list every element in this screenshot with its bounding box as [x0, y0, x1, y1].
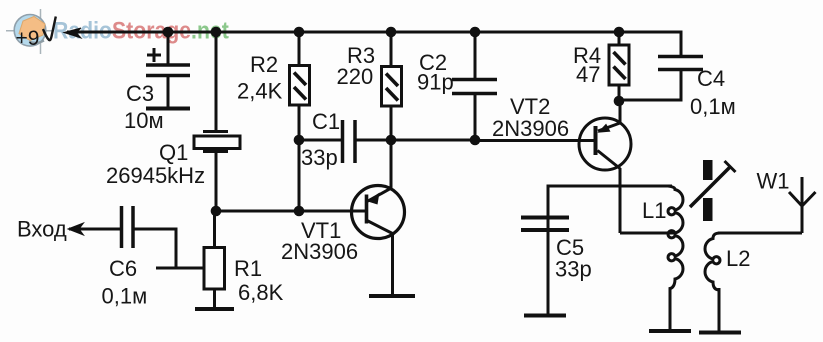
svg-text:R1: R1 [234, 256, 262, 281]
ground R1 [195, 307, 234, 311]
wire R1 top lead [213, 211, 216, 248]
watermark logo circle [6, 9, 53, 54]
svg-text:C4: C4 [697, 66, 725, 91]
crystal Q1 [194, 132, 240, 152]
wire L2 to antenna [718, 232, 802, 235]
node junction R4 bottom [614, 96, 625, 107]
capacitor C3 [146, 48, 190, 107]
node junction Q1 R1 base [211, 206, 222, 217]
ground VT1 [369, 294, 415, 298]
wire input to C6 [69, 228, 120, 231]
svg-text:33p: 33p [301, 145, 338, 170]
svg-text:Q1: Q1 [159, 140, 188, 165]
node junction R3 top [386, 27, 397, 38]
node junction R3 bottom [386, 135, 397, 146]
wire R3 bottom / VT1 collector lead [390, 106, 393, 189]
svg-text:2,4K: 2,4K [237, 79, 283, 104]
capacitor C6 [122, 206, 134, 248]
node junction C1 left [294, 135, 305, 146]
ground C5 [524, 314, 566, 318]
node junction R2 base [294, 206, 305, 217]
wire C5 top [548, 186, 672, 231]
input arrow [68, 223, 84, 235]
wire C6 to R1 [134, 229, 176, 268]
svg-text:6,8K: 6,8K [238, 280, 284, 305]
wire base VT2 [475, 139, 594, 142]
wire R4 bottom lead [618, 85, 621, 101]
inductor L2 [705, 233, 720, 290]
wire top rail [67, 31, 681, 34]
watermark text RadioStorage.net [53, 16, 229, 44]
svg-text:220: 220 [337, 64, 374, 89]
ground C3 [146, 107, 190, 111]
resistor R4 [609, 45, 629, 85]
wire base node [216, 210, 365, 213]
node junction C3 top [163, 27, 174, 38]
core adjuster arrow [690, 161, 736, 207]
wire C2 bottom lead [474, 95, 477, 140]
svg-text:+9: +9 [16, 27, 40, 50]
capacitor C2 [452, 80, 497, 94]
+9v supply label [16, 17, 56, 51]
svg-text:C6: C6 [109, 256, 137, 281]
wire C4 bottom to R4 node [621, 71, 681, 100]
wire R2 bottom lead [298, 105, 301, 211]
svg-text:L2: L2 [726, 246, 750, 271]
ferrite core [703, 160, 713, 221]
node junction R4 top [614, 27, 625, 38]
wire C1 left [299, 139, 341, 142]
svg-text:Вход: Вход [17, 217, 67, 242]
node junction C2 top [470, 27, 481, 38]
capacitor C5 [521, 218, 569, 231]
wire L1 tap [620, 232, 674, 235]
wire C2 top lead [474, 32, 477, 79]
svg-text:L1: L1 [642, 198, 666, 223]
wire L1 bottom lead [669, 288, 672, 330]
wire C3 lead [167, 32, 170, 64]
node junction Q1 top [211, 27, 222, 38]
wire C5 bottom lead [547, 231, 550, 314]
svg-text:2N3906: 2N3906 [492, 116, 569, 141]
svg-text:W1: W1 [757, 169, 790, 194]
resistor R3 [382, 67, 402, 107]
svg-text:33p: 33p [555, 257, 592, 282]
wire R3 top lead [390, 32, 393, 67]
inductor L1 [668, 186, 683, 330]
wire C4 branch top [680, 31, 683, 56]
+9v arrow [64, 28, 81, 38]
wire R4 top lead [618, 32, 621, 45]
svg-text:0,1м: 0,1м [102, 284, 148, 309]
svg-text:91p: 91p [417, 70, 454, 95]
node junction R2 top [294, 27, 305, 38]
wire Q1 top lead [215, 32, 218, 131]
capacitor C1 [343, 120, 356, 163]
svg-text:C3: C3 [126, 81, 154, 106]
svg-text:26945kHz: 26945kHz [106, 163, 205, 188]
resistor R2 [290, 66, 310, 106]
wire VT1 emitter lead [391, 233, 394, 295]
wire L2 bottom lead [718, 288, 721, 331]
antenna W1 [789, 177, 816, 233]
wire R2 top lead [298, 32, 301, 66]
wire stub into R1 [156, 267, 204, 270]
wire Q1 bottom lead [215, 153, 218, 211]
ground L1 [649, 329, 691, 333]
svg-text:0,1м: 0,1м [690, 94, 736, 119]
transistor VT2 [579, 101, 631, 233]
resistor R1 [204, 248, 225, 290]
wire C1 right [356, 139, 475, 142]
svg-text:C1: C1 [312, 109, 340, 134]
transistor VT1 [352, 186, 405, 239]
ground L2 [699, 331, 741, 335]
capacitor C4 [658, 57, 703, 70]
node junction C2 bottom [470, 135, 481, 146]
svg-text:10м: 10м [124, 108, 164, 133]
wire R1 bottom lead [213, 289, 216, 308]
svg-text:2N3906: 2N3906 [281, 239, 358, 264]
svg-text:47: 47 [576, 62, 600, 87]
svg-text:R2: R2 [250, 52, 278, 77]
